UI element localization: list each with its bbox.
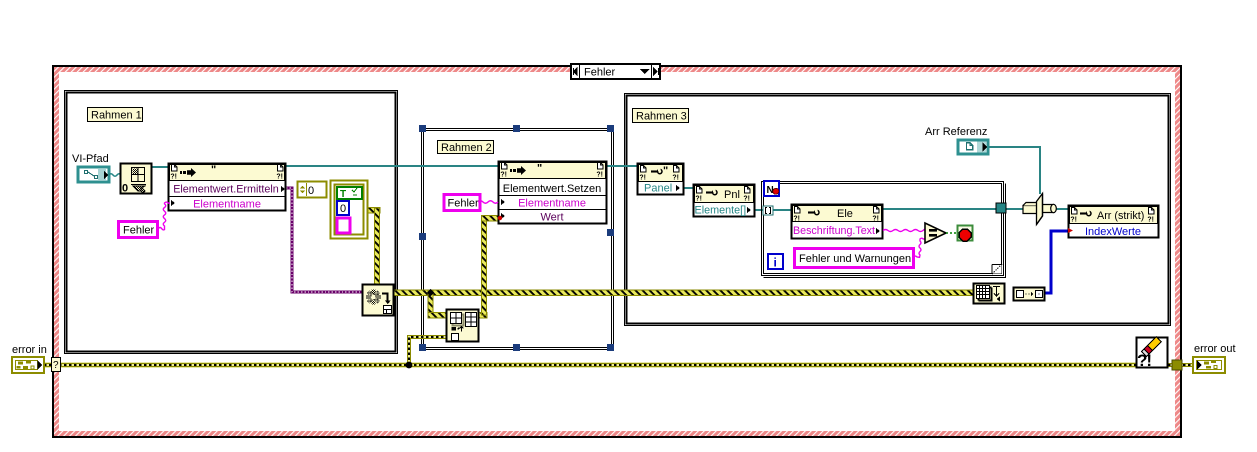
to more specific class node: [1023, 194, 1056, 225]
cluster constant (T,0,empty string): [331, 181, 368, 239]
svg-text:": ": [663, 165, 668, 177]
error out tunnel: [1172, 360, 1182, 370]
string wire FuW to equals: [913, 238, 925, 257]
svg-text:?: ?: [53, 360, 59, 371]
equals node: [925, 223, 946, 243]
Rahmen 3 label: [633, 109, 689, 123]
coercion dot on IndexWerte: [1068, 228, 1073, 233]
hatched wire junction: [427, 289, 434, 296]
Rahmen 2 frame (selected, with handles): [422, 129, 614, 350]
svg-text:Arr Referenz: Arr Referenz: [925, 126, 987, 138]
svg-text:Arr (strikt): Arr (strikt): [1097, 210, 1144, 222]
svg-text:Panel: Panel: [644, 183, 672, 195]
Rahmen 1 frame: [65, 91, 398, 354]
error wire branch up to bundle node: [409, 337, 446, 365]
svg-text:Elementwert.Setzen: Elementwert.Setzen: [503, 183, 601, 195]
wire junction: [406, 362, 413, 369]
case selector label "Fehler": [571, 64, 660, 79]
for loop i terminal: [768, 254, 783, 270]
svg-text:Fehler und Warnungen: Fehler und Warnungen: [799, 253, 911, 265]
invoke/property node corner icons (D ?!): [170, 163, 1154, 224]
teal wire Panel to Pnl: [683, 187, 695, 189]
teal wire Arr Referenz to cast node: [989, 147, 1040, 194]
svg-text:error out: error out: [1194, 343, 1236, 355]
coercion dot on Wert input: [498, 216, 502, 220]
error in terminal: [12, 357, 44, 373]
error cluster array wire (hatched) main: [367, 208, 973, 318]
svg-text:": ": [211, 164, 216, 176]
case selector tunnel: [52, 358, 61, 372]
svg-text:Fehler: Fehler: [448, 198, 480, 210]
string wire Fehler2 to Elementname: [478, 201, 498, 204]
string constant Fehler und Warnungen: [795, 249, 914, 268]
svg-text:Rahmen 2: Rahmen 2: [441, 142, 492, 154]
for loop output tunnel (teal): [996, 203, 1006, 213]
numeric constant 0: [298, 182, 327, 198]
teal wire invoke1 to invoke2 to Panel node: [286, 165, 640, 167]
Rahmen 2 selection handles: [419, 125, 614, 351]
svg-text:Pnl: Pnl: [724, 189, 740, 201]
Fehler constant 1: [119, 222, 158, 238]
invoke node Elementwert.Setzen: [499, 162, 607, 224]
property node Ele / Beschriftung.Text: [792, 205, 883, 239]
wrench icon Ele: [808, 209, 819, 214]
invoke node 2 corner glyphs: [500, 163, 507, 179]
case structure border (Fehler case): [52, 65, 1182, 438]
VI-Pfad path control terminal: [78, 167, 109, 182]
for loop auto-index tunnel: [763, 206, 773, 215]
invoke arrow icon invoke2: [510, 166, 526, 175]
empty array node: [1014, 288, 1045, 301]
Arr Referenz control terminal: [958, 140, 988, 154]
svg-text:Rahmen 3: Rahmen 3: [636, 111, 687, 123]
svg-text:Elemente[]: Elemente[]: [695, 205, 747, 217]
svg-text:Rahmen 1: Rahmen 1: [91, 110, 142, 122]
teal wire loop tunnel to cast node: [1006, 208, 1024, 210]
boolean wire equals to stop: [946, 232, 958, 234]
Pnl node corner glyphs: [695, 187, 702, 203]
for loop folded corner: [992, 264, 1002, 274]
blue int array wire: [1044, 231, 1068, 293]
teal wire Elemente[] to loop tunnel to Ele: [754, 209, 793, 211]
svg-text:Ele: Ele: [837, 208, 853, 220]
Rahmen 1 label: [88, 108, 143, 122]
svg-text:Wert: Wert: [540, 212, 563, 224]
Rahmen 3 frame: [625, 94, 1171, 326]
property node Panel: [638, 164, 684, 195]
Fehler constant 2: [444, 195, 480, 211]
path wire squiggle: [109, 174, 121, 177]
svg-text:0: 0: [122, 183, 128, 195]
svg-text:Fehler: Fehler: [123, 225, 155, 237]
Arr node corner glyphs: [1070, 208, 1077, 224]
property node Pnl / Elemente[]: [694, 185, 755, 217]
for loop frame: [762, 182, 1006, 278]
teal wire cast node to Arr (strikt): [1056, 208, 1069, 210]
string wire Beschriftung.Text to equals: [883, 229, 925, 232]
svg-text:Elementname: Elementname: [193, 199, 261, 211]
property node Arr (strikt) / IndexWerte: [1069, 206, 1159, 239]
invoke node 1 corner glyphs: [170, 165, 177, 181]
svg-text:Elementname: Elementname: [518, 198, 586, 210]
svg-text:T: T: [340, 189, 346, 200]
error out terminal: [1193, 357, 1225, 373]
svg-text:Fehler: Fehler: [584, 67, 616, 79]
stop button terminal: [958, 226, 973, 242]
svg-text:Elementwert.Ermitteln: Elementwert.Ermitteln: [173, 184, 279, 196]
invoke arrow icon invoke1: [180, 168, 196, 177]
svg-text:IndexWerte: IndexWerte: [1085, 226, 1141, 238]
svg-text:0: 0: [340, 203, 346, 215]
invoke node Elementwert.Ermitteln: [169, 164, 287, 211]
wrench icon Panel: [651, 168, 662, 173]
error wire (bottom, error in to error out): [44, 362, 1193, 368]
to-variant (gear) node: [363, 285, 394, 316]
svg-text:0: 0: [308, 185, 314, 197]
svg-text:VI-Pfad: VI-Pfad: [72, 153, 109, 165]
teal wire Ele to loop output tunnel: [881, 208, 998, 210]
svg-text:i: i: [774, 256, 777, 270]
for loop N terminal: [764, 181, 779, 196]
svg-text:error in: error in: [12, 344, 47, 356]
Ele node corner glyphs: [793, 207, 800, 223]
Open VI Reference node: [121, 164, 152, 195]
simple error handler icon: [1137, 337, 1168, 370]
bundle cluster array node: [447, 310, 479, 342]
Panel node corner glyphs: [639, 166, 646, 182]
Rahmen 2 label: [438, 141, 494, 155]
svg-text:Beschriftung.Text: Beschriftung.Text: [793, 225, 875, 237]
wrench icon Arr: [1080, 210, 1091, 215]
purple value wire (dotted): [286, 188, 362, 292]
string wire Fehler1 to Elementname: [158, 202, 170, 230]
wrench icon Pnl: [706, 189, 717, 194]
teal wire open ref to invoke1: [152, 166, 168, 168]
svg-text:": ": [537, 163, 542, 175]
search array node: [974, 284, 1005, 304]
